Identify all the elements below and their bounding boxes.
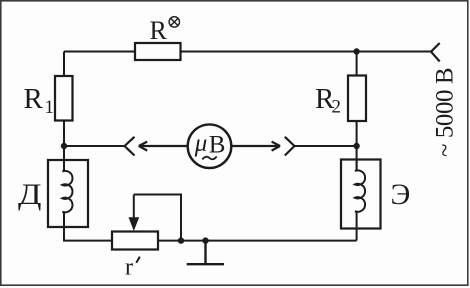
svg-text:2: 2 bbox=[332, 97, 342, 118]
symbol circled-times marker of R bbox=[169, 17, 179, 27]
op meter microvoltmeter U1 circle bbox=[188, 124, 232, 168]
inductor D coil bbox=[62, 161, 72, 227]
wire middle left segment bbox=[64, 145, 125, 147]
wire from D to bottom rail bbox=[64, 227, 112, 241]
svg-text:μ: μ bbox=[194, 130, 208, 157]
svg-text:R: R bbox=[24, 83, 44, 115]
node junction top right bbox=[353, 48, 359, 54]
break chevron right bbox=[285, 137, 295, 156]
svg-text:Д: Д bbox=[18, 178, 42, 211]
inductor E box bbox=[341, 160, 381, 229]
wire top horizontal right of R bbox=[181, 51, 432, 53]
node junction left middle bbox=[61, 143, 67, 149]
wire top horizontal left of R bbox=[64, 51, 135, 53]
tilde AC mark under meter label bbox=[202, 156, 216, 159]
svg-text:1: 1 bbox=[45, 97, 55, 118]
wire middle right segment bbox=[295, 145, 357, 147]
node junction wiper return bbox=[178, 237, 184, 243]
inductor D box bbox=[48, 160, 88, 227]
svg-text:Э: Э bbox=[391, 178, 411, 211]
arrow pointing right from meter lead bbox=[231, 142, 280, 151]
node junction right middle bbox=[353, 143, 359, 149]
svg-text:R: R bbox=[150, 16, 168, 45]
wire from E to bottom rail bbox=[356, 229, 358, 241]
wiper wire to bottom rail bbox=[134, 195, 181, 241]
wire left vertical top bbox=[63, 52, 65, 77]
resistor R bbox=[135, 43, 181, 60]
break chevron left bbox=[125, 137, 135, 156]
node junction ground bbox=[202, 237, 208, 243]
resistor R2 bbox=[348, 76, 366, 122]
svg-text:~ 5000 В: ~ 5000 В bbox=[431, 68, 458, 157]
ground bbox=[187, 241, 224, 265]
rheostat wiper arrow bbox=[133, 195, 135, 222]
terminal fork to HV source bbox=[431, 43, 440, 62]
resistor R1 bbox=[55, 76, 73, 121]
arrow pointing left to meter lead bbox=[139, 142, 188, 151]
wire right vertical top bbox=[356, 52, 358, 76]
rheostat r' body bbox=[112, 232, 158, 250]
wire right vertical below R2 bbox=[356, 121, 358, 171]
svg-text:В: В bbox=[209, 131, 226, 158]
svg-text:r: r bbox=[125, 255, 133, 281]
wire bottom rail bbox=[158, 240, 357, 242]
wire left vertical below R1 bbox=[63, 121, 65, 162]
inductor E coil bbox=[355, 161, 365, 229]
